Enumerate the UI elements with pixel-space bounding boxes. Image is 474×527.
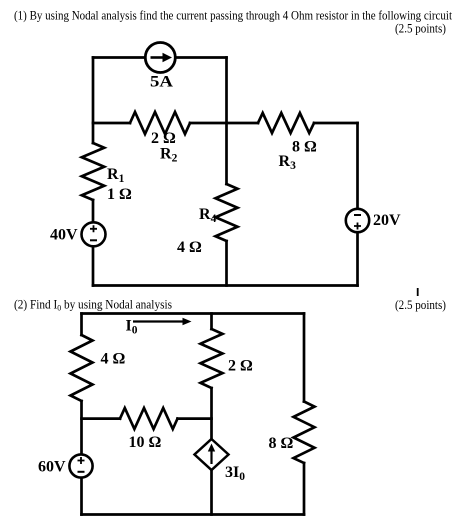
wire mid horizontal center (190, 122, 258, 125)
voltage source 20V (346, 209, 369, 232)
svg-text:R4: R4 (199, 206, 217, 225)
wire bottom circuit2 (82, 513, 305, 516)
svg-text:10 Ω: 10 Ω (129, 434, 162, 451)
svg-text:R2: R2 (160, 146, 178, 165)
wire middle vertical lower circuit2 (210, 388, 213, 515)
wire left lower circuit1 (92, 200, 95, 286)
wire mid horizontal left (93, 122, 130, 125)
svg-text:2 Ω: 2 Ω (228, 358, 253, 375)
svg-text:(1) By using Nodal analysis fi: (1) By using Nodal analysis find the cur… (14, 9, 453, 23)
wire 10ohm row right (178, 417, 212, 420)
resistor 10ohm (120, 408, 178, 429)
svg-text:20V: 20V (373, 212, 401, 229)
wire top circuit2 (82, 312, 305, 315)
svg-text:I0: I0 (126, 318, 138, 337)
svg-text:60V: 60V (38, 459, 66, 476)
wire top circuit1 (93, 56, 227, 59)
resistor 8ohm right (294, 402, 315, 464)
svg-text:40V: 40V (50, 227, 78, 244)
svg-text:3I0: 3I0 (225, 464, 245, 483)
svg-text:(2.5 points): (2.5 points) (395, 22, 446, 36)
dependent current source 3I0 (195, 439, 229, 470)
svg-text:5A: 5A (150, 74, 174, 91)
svg-text:4 Ω: 4 Ω (101, 351, 126, 368)
wire middle vertical circuit1 (225, 58, 228, 185)
wire mid horizontal right (314, 122, 358, 125)
svg-text:2 Ω: 2 Ω (151, 130, 176, 147)
svg-text:8 Ω: 8 Ω (269, 435, 294, 452)
resistor R2 (130, 112, 190, 134)
wire right vertical lower circuit2 (303, 463, 306, 515)
current arrow I0 (133, 318, 192, 326)
wire middle vertical lower circuit1 (225, 241, 228, 286)
wire right vertical circuit1 (356, 123, 359, 286)
current source 5A (145, 43, 175, 73)
svg-text:1 Ω: 1 Ω (107, 186, 132, 203)
wire left upper circuit1 (92, 58, 95, 144)
wire left lower circuit2 (80, 401, 83, 515)
wire bottom circuit1 (93, 284, 358, 287)
wire 10ohm row left (82, 417, 121, 420)
resistor R4 (216, 184, 238, 241)
voltage source 60V (69, 454, 92, 477)
svg-text:(2) Find I0 by using Nodal ana: (2) Find I0 by using Nodal analysis (14, 298, 172, 313)
wire middle vertical upper circuit2 (210, 314, 213, 330)
svg-text:(2.5 points): (2.5 points) (395, 298, 446, 312)
svg-text:R1: R1 (107, 166, 125, 185)
svg-text:4 Ω: 4 Ω (177, 239, 202, 256)
resistor R3 (258, 113, 314, 133)
resistor 4ohm (71, 335, 93, 401)
wire right vertical circuit2 (303, 314, 306, 402)
svg-text:R3: R3 (279, 153, 297, 172)
svg-text:8 Ω: 8 Ω (292, 139, 317, 156)
tick mark (417, 288, 419, 296)
resistor R1 (82, 143, 104, 200)
voltage source 40V (82, 222, 106, 246)
wire left upper circuit2 (80, 314, 83, 336)
resistor 2ohm (201, 329, 223, 388)
